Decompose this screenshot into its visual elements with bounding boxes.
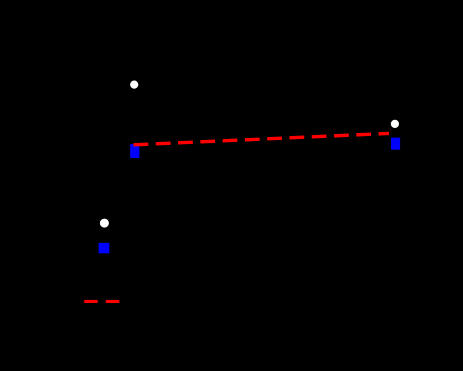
white circle marker C2 (right): [391, 120, 399, 128]
blue square marker S3 (left-bottom): [99, 243, 110, 253]
blue square marker cluster S2 (two overlapped squares, right): [391, 138, 400, 150]
white circle marker C3 (left-bottom): [100, 219, 109, 228]
white circle marker C1 (top-left): [130, 81, 138, 89]
blue square marker cluster S1 (two overlapped squares, left-top): [130, 144, 139, 158]
legend sample line (red dashes): [84, 300, 119, 303]
red dashed trend line: [134, 133, 390, 144]
